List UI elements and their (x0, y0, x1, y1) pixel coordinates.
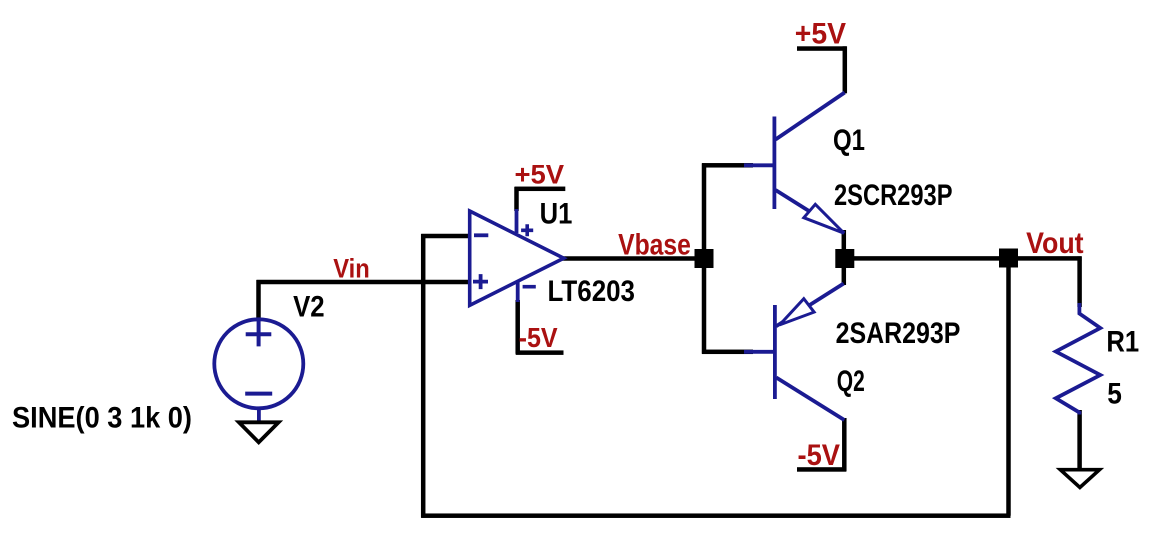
ground below R1 (1060, 470, 1099, 488)
wire op-amp output to Vbase node (562, 256, 705, 261)
flag bar +5V Q1 (797, 46, 847, 51)
wire R1 top lead (1077, 256, 1082, 307)
flag bar -5V op-amp (516, 350, 564, 355)
net label -5V Q2 (798, 439, 841, 472)
net label Vbase (618, 228, 691, 261)
flag bar -5V Q2 (797, 467, 846, 472)
wire Vin horizontal (257, 280, 472, 285)
svg-text:Vbase: Vbase (618, 228, 691, 261)
transistor Q1 (744, 93, 845, 234)
wire R1 bottom lead (1077, 410, 1082, 470)
svg-text:V2: V2 (293, 290, 325, 323)
net label +5V op-amp (515, 160, 565, 190)
flag bar +5V op-amp (515, 187, 566, 192)
svg-text:Q2: Q2 (837, 365, 865, 398)
ground below V2 (239, 422, 279, 442)
resistor R1 (1056, 303, 1101, 415)
svg-text:2SAR293P: 2SAR293P (836, 317, 961, 350)
op-amp U1 (470, 209, 564, 305)
label 2SAR293P (836, 317, 961, 350)
label Q1 (833, 124, 865, 157)
label LT6203 (548, 275, 636, 308)
label V2 (293, 290, 325, 323)
svg-text:5: 5 (1107, 378, 1122, 411)
label Q2 (837, 365, 865, 398)
svg-text:+5V: +5V (795, 18, 846, 51)
wire Q1 collector to +5V (843, 46, 848, 93)
wire Q1 emitter to node (842, 230, 847, 250)
net label Vout (1026, 227, 1084, 260)
label U1 (540, 198, 573, 231)
svg-text:-5V: -5V (798, 439, 841, 472)
wire emitter node to Vout corner (842, 256, 1082, 261)
svg-text:2SCR293P: 2SCR293P (834, 179, 953, 212)
net label +5V Q1 (795, 18, 846, 51)
net label -5V op-amp (519, 322, 559, 353)
svg-text:Vin: Vin (333, 254, 370, 284)
wire Q2 emitter to node (842, 266, 847, 285)
node emitter junction (835, 249, 854, 268)
net label Vin (333, 254, 370, 284)
node Vbase junction (695, 249, 714, 268)
wire Vbase vertical to bases (702, 163, 707, 353)
svg-text:U1: U1 (540, 198, 573, 231)
label R1 (1106, 326, 1139, 359)
svg-text:R1: R1 (1106, 326, 1139, 359)
wire op-amp V+ pin (514, 187, 519, 211)
wire V2 to ground (blue source lead) (257, 408, 261, 422)
svg-text:+5V: +5V (515, 160, 565, 190)
label 2SCR293P (834, 179, 953, 212)
wire feedback left vertical (421, 234, 426, 518)
svg-text:LT6203: LT6203 (548, 275, 636, 308)
transistor Q2 (744, 284, 844, 421)
svg-text:Vout: Vout (1026, 227, 1084, 260)
wire op-amp V- pin (515, 300, 520, 354)
wire Q1 base lead (702, 163, 753, 168)
wire Q2 collector to -5V (842, 418, 847, 472)
wire V2 top lead (256, 280, 261, 318)
voltage source V2 (214, 319, 303, 408)
wire feedback right vertical (1006, 258, 1011, 516)
svg-text:SINE(0 3 1k 0): SINE(0 3 1k 0) (12, 401, 192, 434)
wire Q2 base lead (702, 350, 753, 355)
svg-text:-5V: -5V (519, 322, 559, 353)
label 5 (1107, 378, 1122, 411)
node Vout junction (999, 249, 1018, 268)
svg-text:Q1: Q1 (833, 124, 865, 157)
wire inverting input lead (421, 234, 472, 239)
label SINE(0 3 1k 0) (12, 401, 192, 434)
wire feedback bottom rail (421, 513, 1010, 518)
